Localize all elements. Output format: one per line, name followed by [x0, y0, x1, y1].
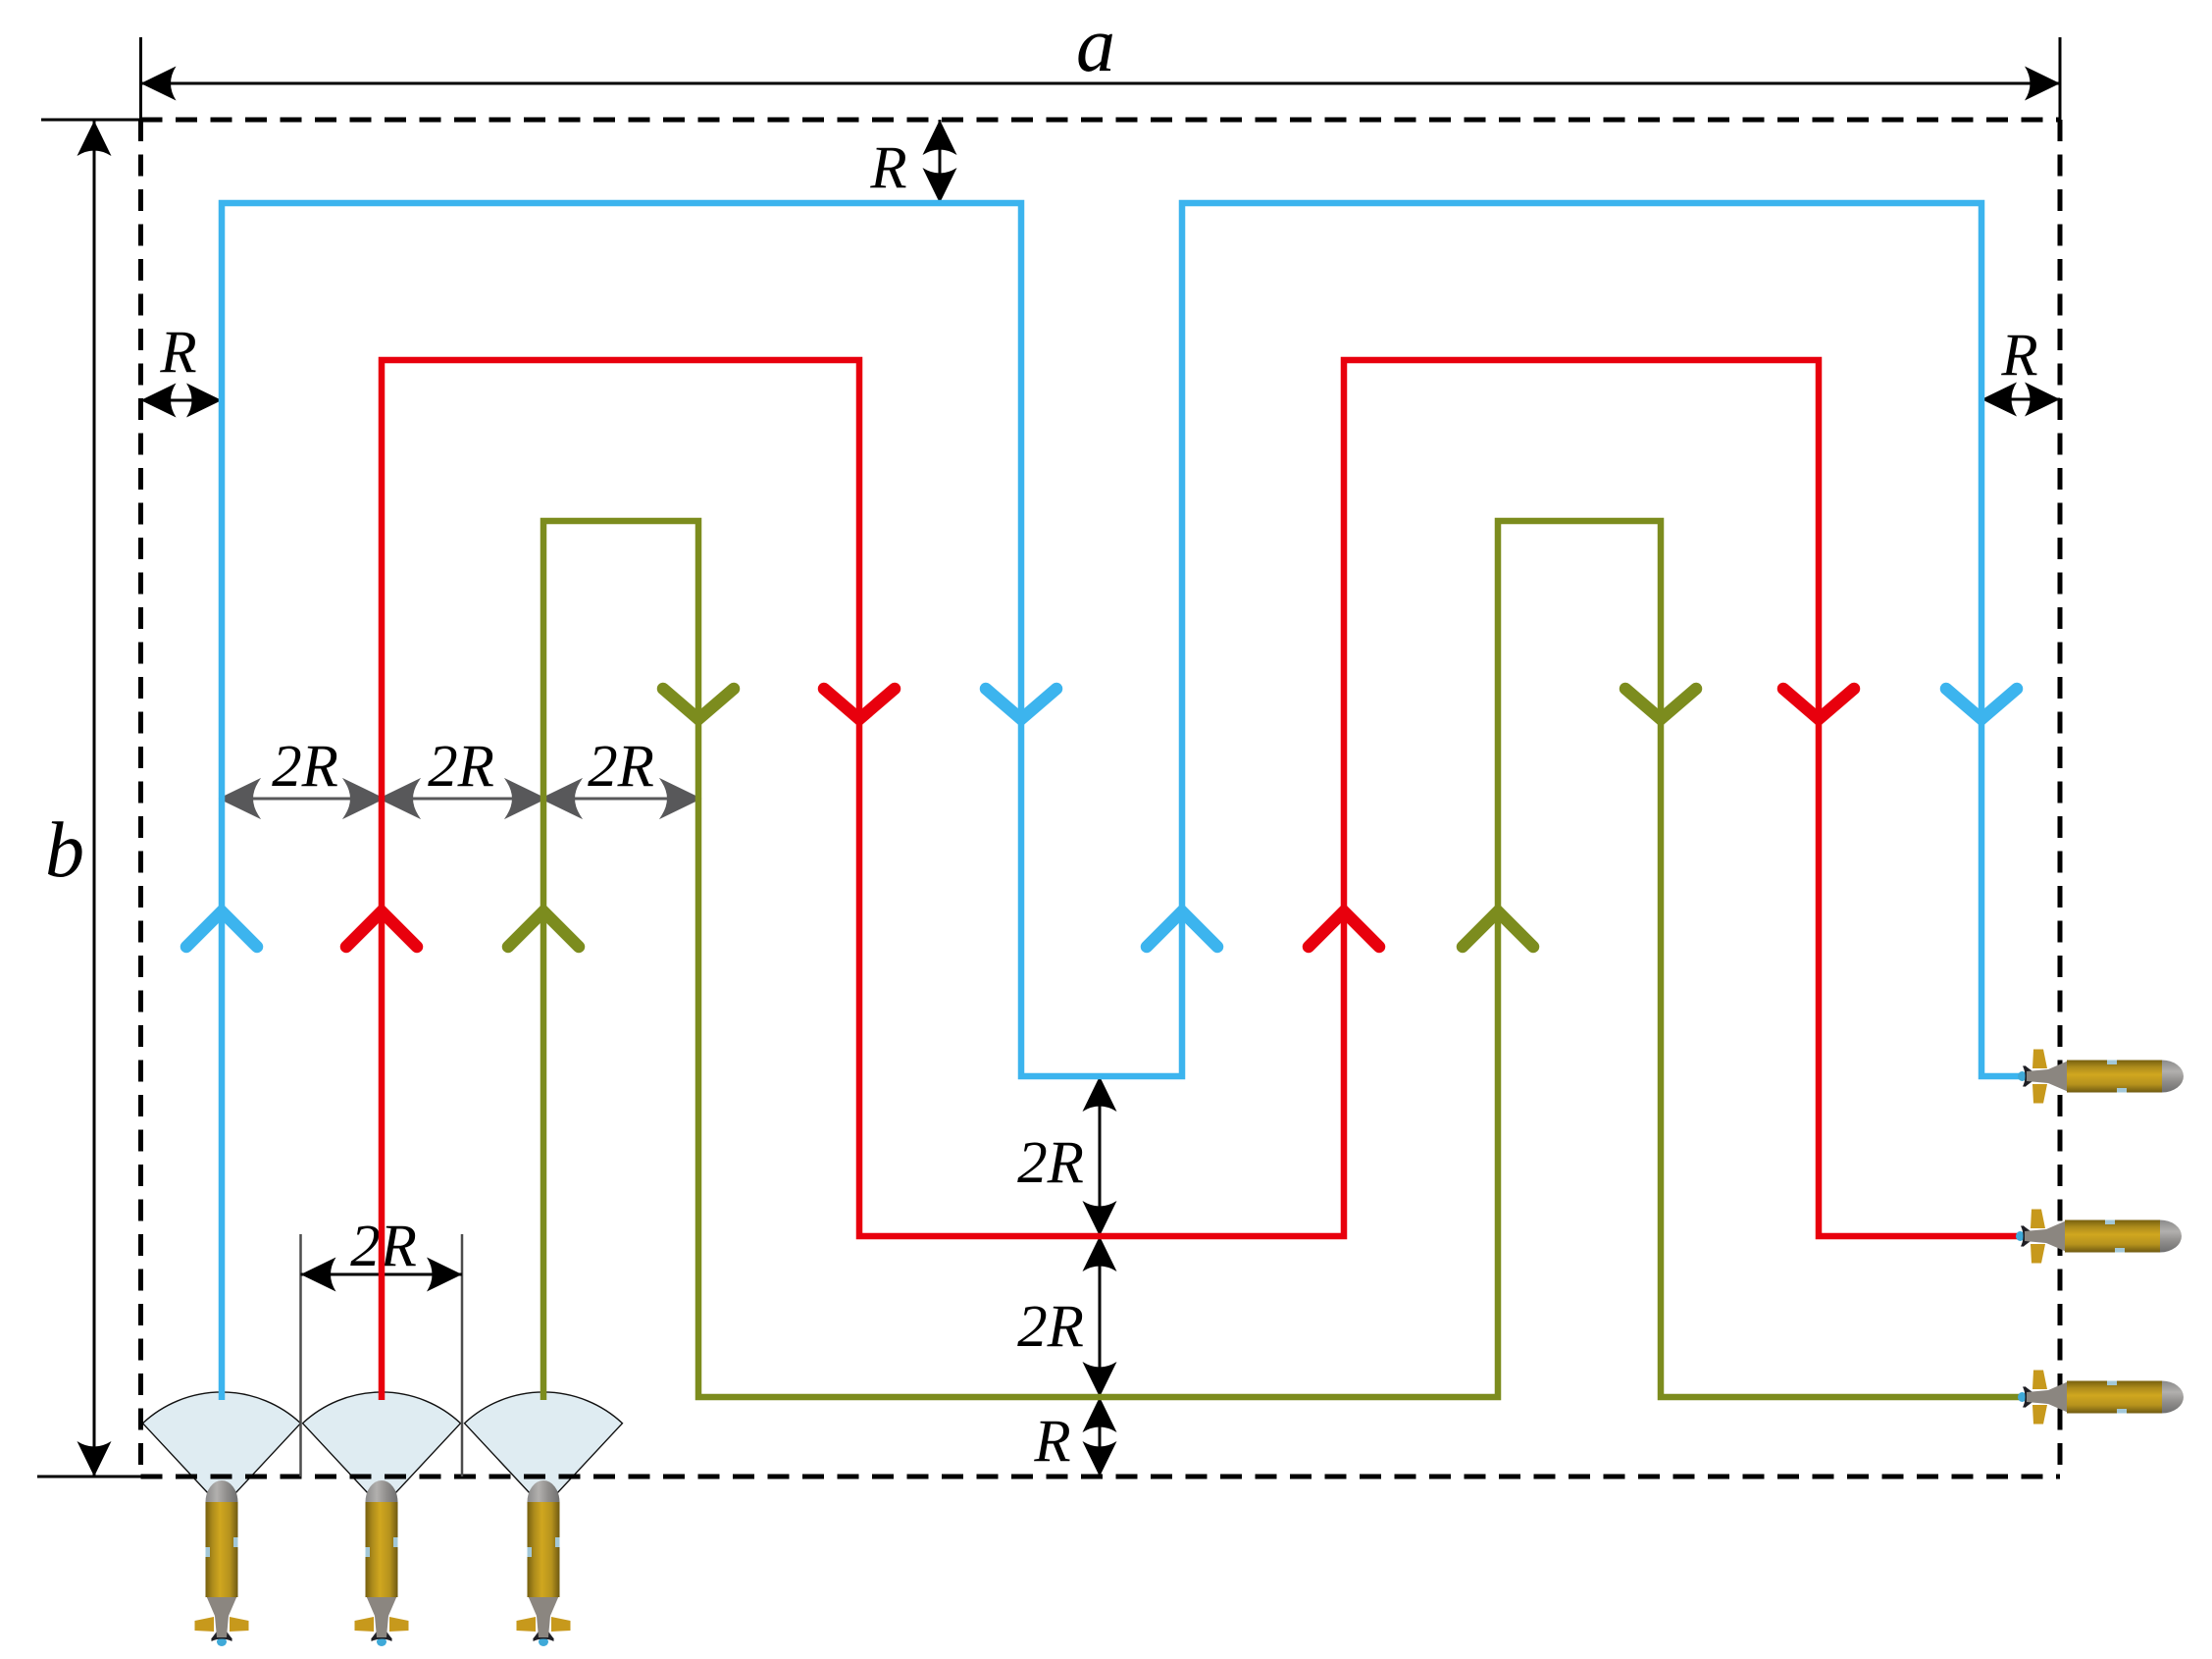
AUV1 path (blue) [222, 203, 2023, 1400]
sonar swath fan 3 (olive AUV start) [465, 1392, 623, 1508]
svg-text:2R: 2R [1017, 1294, 1084, 1360]
svg-text:2R: 2R [272, 734, 338, 800]
boundary bottom edge [141, 1475, 2061, 1479]
blue up chevron left [186, 911, 257, 947]
sonar swath fan 2 (red AUV start) [303, 1392, 461, 1508]
dimension a: line with arrowheads [141, 82, 2061, 85]
bottom-left 2R dimension: extension lines [301, 1234, 463, 1477]
AUV torpedo bottom 3 (olive start) [517, 1480, 571, 1646]
mid-column dimension 2R (blue U to red leg) [1099, 1076, 1102, 1236]
bottom-left 2R dimension: line with arrowheads [301, 1273, 463, 1276]
blue leg up from start [222, 203, 2023, 1400]
AUV torpedo bottom 1 (blue start) [195, 1480, 249, 1646]
svg-text:2R: 2R [588, 734, 654, 800]
svg-text:R: R [2000, 323, 2037, 389]
svg-text:2R: 2R [1017, 1130, 1084, 1196]
mid-column dimension R (olive leg to boundary) [1099, 1397, 1102, 1477]
survey area boundary (dashed rectangle) [141, 120, 2061, 1477]
blue up chevron right [1147, 911, 1217, 947]
red down chevron right [1783, 689, 1854, 719]
gray 2R dimension row: olive to olive-return [543, 798, 698, 801]
dimension R right (blue line to boundary) [1981, 398, 2060, 401]
olive up chevron left [508, 911, 579, 947]
gray 2R dimension row: red to olive [382, 798, 543, 801]
dimension b: extension lines [37, 120, 153, 1477]
blue down chevron right [1946, 689, 2017, 719]
AUV torpedo bottom 2 (red start) [355, 1480, 409, 1646]
svg-text:2R: 2R [428, 734, 494, 800]
svg-text:a: a [1076, 2, 1115, 88]
svg-text:R: R [159, 320, 196, 386]
svg-text:R: R [1033, 1409, 1070, 1475]
gray 2R dimension row: blue to red [222, 782, 698, 816]
dimension a: extension lines [141, 37, 2061, 120]
AUV torpedo right 1 (blue exit) [2018, 1050, 2184, 1104]
boundary left edge [138, 120, 143, 1477]
svg-text:b: b [45, 807, 84, 894]
red up chevron left [346, 911, 417, 947]
red up chevron right [1309, 911, 1379, 947]
mid-column dimension 2R (red leg to olive leg) [1099, 1236, 1102, 1397]
dimension R top-centre (boundary to first blue leg) [939, 120, 942, 203]
blue down chevron left [986, 689, 1056, 719]
olive down chevron left [663, 689, 734, 719]
boundary right edge [2058, 120, 2063, 1477]
AUV torpedo right 3 (olive exit) [2018, 1371, 2184, 1425]
dimension R left (boundary to blue line) [141, 399, 223, 402]
svg-text:R: R [869, 135, 906, 201]
olive up chevron right [1463, 911, 1533, 947]
AUV torpedo right 2 (red exit) [2016, 1210, 2182, 1264]
sonar swath fan 1 (blue AUV start) [143, 1392, 301, 1508]
AUV2 path (red) [382, 360, 2019, 1400]
red down chevron left [824, 689, 895, 719]
boundary top edge [141, 118, 2061, 123]
olive down chevron right [1625, 689, 1696, 719]
dimension b: line with arrowheads [93, 121, 96, 1477]
AUV3 path (olive) [543, 521, 2021, 1400]
